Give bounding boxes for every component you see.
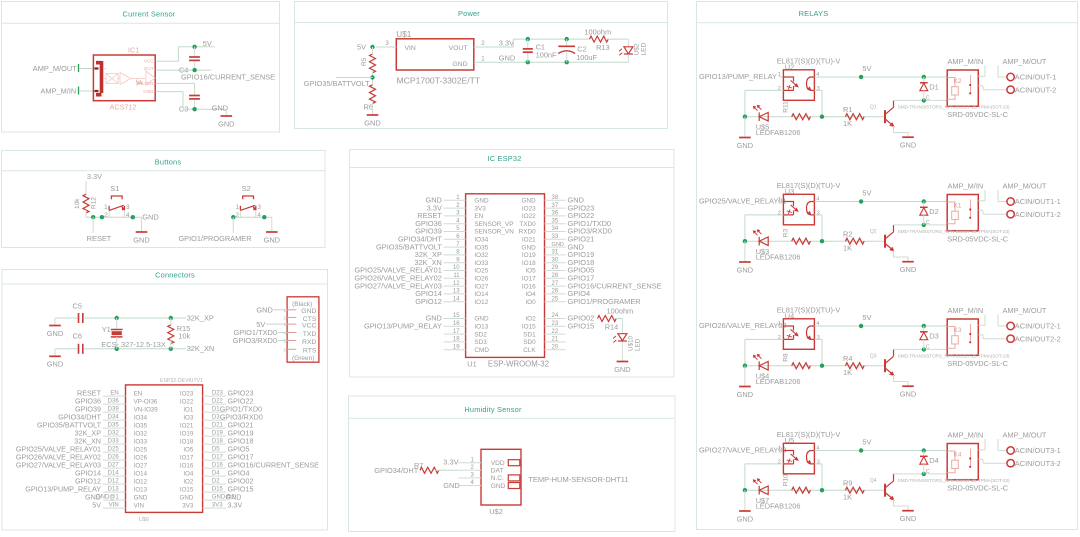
svg-text:OUT: OUT [144, 66, 154, 71]
svg-text:GND: GND [180, 495, 194, 502]
svg-text:VCC: VCC [144, 59, 154, 64]
wire GPIO1/TXD0 to serial pin4 [278, 332, 287, 334]
svg-text:RESET: RESET [87, 234, 112, 243]
node 5V [859, 324, 863, 328]
U1 pin 30 right [545, 262, 566, 264]
svg-text:4: 4 [126, 212, 130, 219]
U1 pin 29 right [545, 270, 566, 272]
wire IC1 OUT node GPIO16/CURRENT_SENSE [156, 69, 195, 71]
svg-text:U$2: U$2 [634, 43, 641, 55]
svg-text:GND: GND [521, 244, 536, 251]
svg-text:IO13: IO13 [474, 324, 488, 331]
svg-text:GND: GND [142, 212, 158, 221]
svg-text:ACIN/OUT3-2: ACIN/OUT3-2 [1015, 459, 1061, 468]
svg-text:15: 15 [453, 313, 460, 319]
svg-text:GND: GND [614, 365, 630, 374]
U$6 pin row 6 right D19 [203, 435, 226, 437]
capacitor C3 [189, 95, 200, 97]
U1 pin 14 left [444, 301, 466, 303]
svg-text:SD3: SD3 [474, 339, 487, 346]
wire gpio to optocoupler [779, 76, 783, 78]
U$6 pin row 11 right D4 [203, 475, 226, 477]
U$2 pin 3 N.C. [458, 477, 481, 479]
wire relay to terminal 2 [978, 458, 983, 460]
U$6 pin row 6 left D32 [103, 435, 126, 437]
U1 pin 24 right [545, 318, 566, 320]
svg-text:D2: D2 [212, 479, 220, 485]
svg-text:34: 34 [552, 226, 559, 232]
U1 pin 28 right [545, 277, 566, 279]
wire opto pin3 down [814, 89, 822, 91]
svg-text:TEMP-HUM-SENSOR-DHT11: TEMP-HUM-SENSOR-DHT11 [528, 475, 628, 484]
capacitor C4 [194, 47, 196, 56]
svg-text:GND: GND [364, 118, 380, 127]
wire 5V rail [814, 201, 947, 203]
serial pin 3 VCC [287, 323, 296, 325]
svg-text:38: 38 [552, 195, 559, 201]
svg-text:IO12: IO12 [134, 479, 148, 486]
U$6 pin row 13 left D13 [103, 491, 126, 493]
U1 pin 19 left [444, 349, 466, 351]
svg-text:IO19: IO19 [180, 431, 194, 438]
svg-text:IO2: IO2 [183, 479, 194, 486]
svg-text:RTS: RTS [303, 348, 317, 355]
svg-text:IO33: IO33 [474, 260, 488, 267]
U$6 pin row 9 right D17 [203, 459, 226, 461]
svg-text:GND: GND [900, 141, 916, 150]
svg-text:31: 31 [552, 250, 559, 256]
wire GND to serial pin1 [274, 309, 287, 311]
svg-text:VOUT: VOUT [449, 45, 468, 52]
svg-text:GND: GND [256, 306, 272, 315]
svg-text:C5: C5 [73, 302, 82, 311]
svg-text:IO14: IO14 [474, 291, 488, 298]
wire 5V rail [814, 325, 947, 327]
svg-text:IO15: IO15 [180, 487, 194, 494]
svg-text:2: 2 [778, 86, 781, 92]
IC1 connector bracket [96, 61, 102, 95]
resistor R6 [370, 85, 376, 104]
resistor R15 10k [170, 318, 172, 326]
frame: Power box [295, 2, 668, 129]
svg-text:GND: GND [47, 329, 63, 338]
svg-text:D32: D32 [108, 431, 120, 437]
svg-text:GPIO34/DHT: GPIO34/DHT [374, 466, 418, 475]
U$6 pin row 5 left D35 [103, 427, 126, 429]
svg-text:5V: 5V [92, 501, 101, 510]
svg-text:D1: D1 [929, 82, 938, 91]
svg-text:VN-IO39: VN-IO39 [134, 407, 159, 414]
svg-text:2: 2 [104, 212, 108, 219]
svg-text:SRD-05VDC-SL-C: SRD-05VDC-SL-C [947, 234, 1008, 243]
svg-text:ACIN/OUT2-1: ACIN/OUT2-1 [1015, 322, 1061, 331]
svg-text:2: 2 [778, 211, 781, 217]
svg-text:D36: D36 [108, 399, 120, 405]
svg-text:Buttons: Buttons [155, 157, 182, 166]
svg-text:IO25: IO25 [134, 447, 148, 454]
svg-text:IO19: IO19 [522, 252, 536, 259]
svg-text:IO25: IO25 [474, 268, 488, 275]
svg-text:LED: LED [635, 338, 642, 351]
svg-text:LEDFAB1206: LEDFAB1206 [756, 502, 801, 511]
resistor R8 [792, 363, 811, 369]
U1 pin 34 right [545, 231, 566, 233]
svg-text:D33: D33 [108, 439, 120, 445]
svg-text:GND: GND [552, 242, 564, 248]
wire 5V rail [814, 76, 947, 78]
svg-text:IO17: IO17 [522, 276, 536, 283]
svg-text:C2: C2 [577, 45, 586, 54]
svg-text:FILTER: FILTER [138, 81, 154, 86]
U1 pin 12 left [444, 285, 466, 287]
node RESET [92, 217, 94, 233]
wire 5V to R5 [372, 47, 374, 54]
svg-text:C: C [926, 96, 930, 102]
svg-text:IO32: IO32 [134, 431, 148, 438]
serial pin 2 CTS [287, 316, 296, 318]
svg-text:(Black): (Black) [292, 301, 312, 308]
svg-text:100ohm: 100ohm [607, 307, 634, 316]
svg-text:Q4: Q4 [870, 478, 877, 484]
svg-text:IO2: IO2 [525, 316, 536, 323]
svg-text:ESP-WROOM-32: ESP-WROOM-32 [488, 359, 549, 368]
wire opto pin2 to led row [745, 89, 784, 91]
svg-text:IO35: IO35 [474, 244, 488, 251]
frame: Connectors box [2, 270, 328, 531]
wire led row [745, 116, 885, 118]
pin 3 VIN stub [376, 46, 396, 48]
svg-text:1K: 1K [843, 243, 852, 252]
svg-text:LED: LED [641, 43, 648, 56]
node GPIO1/PROGRAMER [232, 217, 234, 233]
svg-text:GND: GND [443, 481, 459, 490]
svg-text:28: 28 [552, 273, 559, 279]
resistor R5 [370, 54, 376, 73]
wire relay to terminal 2 [978, 209, 983, 211]
svg-text:R9: R9 [843, 479, 852, 488]
svg-text:3V3: 3V3 [182, 503, 194, 510]
svg-text:R8: R8 [783, 353, 790, 362]
svg-text:2: 2 [778, 335, 781, 341]
svg-text:Power: Power [458, 9, 480, 18]
svg-text:3: 3 [817, 335, 820, 341]
U$6 pin row 7 left D33 [103, 443, 126, 445]
LED U$4 LEDFAB1206 [759, 361, 768, 370]
svg-text:IO33: IO33 [134, 439, 148, 446]
capacitor C2 100uF [565, 37, 569, 41]
U$6 pin row 12 left D12 [103, 483, 126, 485]
svg-text:Humidity Sensor: Humidity Sensor [464, 405, 522, 414]
svg-text:5V: 5V [203, 39, 212, 48]
svg-text:1: 1 [778, 446, 781, 452]
LED U$10 [618, 334, 627, 341]
serial pin 6 RTS [287, 348, 296, 350]
svg-text:26: 26 [552, 289, 559, 295]
svg-text:ACIN/OUT3-1: ACIN/OUT3-1 [1015, 446, 1061, 455]
U1 pin 11 left [444, 277, 466, 279]
svg-text:GND: GND [900, 390, 916, 399]
svg-text:C6: C6 [73, 332, 82, 341]
svg-text:10k: 10k [74, 198, 81, 209]
svg-text:GPIO12: GPIO12 [415, 297, 442, 306]
terminal ACIN/OUT-2 [1007, 86, 1014, 93]
svg-text:4: 4 [257, 212, 261, 219]
ground symbol (transistor) [902, 385, 914, 387]
svg-text:D18: D18 [212, 439, 224, 445]
svg-text:D4: D4 [212, 471, 220, 477]
svg-text:GND: GND [474, 316, 489, 323]
svg-text:D23: D23 [212, 391, 224, 397]
svg-text:GND: GND [491, 483, 506, 490]
U1 pin 35 right [545, 223, 566, 225]
svg-text:GND: GND [133, 235, 149, 244]
ground symbol (led) [744, 366, 746, 387]
svg-text:(Green): (Green) [292, 355, 314, 362]
svg-text:GPIO16/CURRENT_SENSE: GPIO16/CURRENT_SENSE [181, 72, 275, 81]
svg-text:11: 11 [453, 273, 460, 279]
svg-text:U$2: U$2 [489, 507, 503, 516]
svg-text:32K_XP: 32K_XP [187, 313, 214, 322]
svg-text:D4: D4 [929, 456, 938, 465]
svg-text:U1: U1 [467, 359, 476, 368]
svg-text:32K_XN: 32K_XN [187, 344, 215, 353]
serial pin 4 TXD [287, 332, 296, 334]
U$6 pin row 7 right D18 [203, 443, 226, 445]
svg-text:C: C [926, 469, 930, 475]
connector serial header [287, 297, 319, 362]
wire button row S2 [233, 216, 271, 218]
svg-text:GND: GND [264, 235, 280, 244]
svg-text:EN: EN [474, 213, 483, 220]
svg-text:R1: R1 [843, 105, 852, 114]
svg-text:GPIO27/VALVE_RELAY03: GPIO27/VALVE_RELAY03 [699, 446, 787, 455]
LED U$3 LEDFAB1206 [759, 237, 768, 246]
ground symbol (C5) [54, 318, 56, 326]
svg-text:ACIN/OUT1-1: ACIN/OUT1-1 [1015, 197, 1061, 206]
svg-text:1: 1 [235, 204, 239, 211]
U1 pin 1 left [444, 199, 466, 201]
svg-text:35: 35 [552, 218, 559, 224]
resistor R2 1K [845, 238, 864, 244]
svg-text:22: 22 [552, 329, 559, 335]
svg-text:3V3: 3V3 [474, 205, 486, 212]
svg-text:IO16: IO16 [180, 463, 194, 470]
diode D2 [922, 199, 926, 203]
wire IC1 VCC to 5V [156, 60, 179, 62]
wire IC1 FILTER to C3 [156, 82, 195, 84]
svg-text:LEDFAB1206: LEDFAB1206 [756, 377, 801, 386]
terminal ACIN/OUT-1 [1007, 73, 1014, 80]
svg-text:GND: GND [301, 308, 316, 315]
svg-text:RXD: RXD [302, 339, 316, 346]
svg-text:R5: R5 [361, 57, 368, 66]
svg-text:100uF: 100uF [576, 53, 597, 62]
svg-text:3.3V: 3.3V [228, 501, 243, 510]
svg-text:AMP_M/OUT: AMP_M/OUT [33, 64, 77, 73]
svg-text:AMP_M/IN: AMP_M/IN [948, 306, 984, 315]
svg-text:D13: D13 [108, 487, 120, 493]
pin 1 GND stub [474, 61, 514, 63]
U1 pin 38 right [545, 199, 566, 201]
svg-text:3.3V: 3.3V [87, 172, 102, 181]
svg-text:ECS-.327-12.5-13X: ECS-.327-12.5-13X [101, 340, 166, 349]
svg-text:D25: D25 [108, 447, 120, 453]
svg-text:16: 16 [453, 321, 460, 327]
svg-text:18: 18 [453, 337, 460, 343]
svg-text:IO12: IO12 [474, 299, 488, 306]
node 5V [859, 75, 863, 79]
svg-text:EN: EN [110, 391, 118, 397]
U1 pin 23 right [545, 325, 566, 327]
svg-text:D27: D27 [108, 463, 120, 469]
svg-text:Y1: Y1 [102, 325, 111, 334]
svg-text:R2: R2 [843, 230, 852, 239]
relay K2 SRD-05VDC-SL-C [947, 70, 978, 106]
svg-text:5V: 5V [357, 43, 366, 52]
svg-text:D21: D21 [212, 423, 224, 429]
svg-text:SENSOR_VP: SENSOR_VP [474, 221, 513, 228]
svg-text:GND: GND [737, 390, 753, 399]
svg-text:D3: D3 [929, 331, 938, 340]
LED U$7 LEDFAB1206 [759, 486, 768, 495]
svg-text:3: 3 [126, 204, 130, 211]
svg-text:ACIN/OUT2-2: ACIN/OUT2-2 [1015, 334, 1061, 343]
svg-text:VP-OI36: VP-OI36 [134, 399, 158, 406]
wire opto pin2 to led row [745, 338, 784, 340]
U1 pin 16 left [444, 325, 466, 327]
svg-text:GPIO15: GPIO15 [568, 322, 595, 331]
wire led row [745, 240, 885, 242]
svg-text:GND: GND [47, 360, 63, 369]
wire led row [745, 365, 885, 367]
svg-text:VDD: VDD [491, 460, 505, 467]
svg-text:GND: GND [900, 265, 916, 274]
U$6 pin row 2 left D36 [103, 403, 126, 405]
U1 pin 20 right [545, 349, 566, 351]
svg-text:3: 3 [817, 460, 820, 466]
svg-text:19: 19 [453, 344, 460, 350]
svg-text:37: 37 [552, 203, 559, 209]
svg-text:GND: GND [452, 61, 467, 68]
relay K1 SRD-05VDC-SL-C [947, 195, 978, 231]
svg-text:10k: 10k [178, 332, 190, 341]
svg-text:GND: GND [499, 54, 515, 63]
svg-text:CMD: CMD [474, 347, 489, 354]
resistor R11 [792, 114, 811, 120]
frame: Humidity Sensor box [349, 396, 676, 532]
ground symbol (transistor) [902, 510, 914, 512]
svg-text:D5: D5 [212, 447, 220, 453]
svg-text:IC ESP32: IC ESP32 [487, 154, 521, 163]
svg-text:GND: GND [218, 119, 234, 128]
svg-text:ACS712: ACS712 [110, 102, 137, 111]
pin 2 VOUT stub [474, 46, 514, 48]
wire GPIO3/RXD0 to serial pin5 [278, 340, 287, 342]
svg-text:Q1: Q1 [870, 105, 877, 111]
svg-text:GPIO26/VALVE_RELAY02: GPIO26/VALVE_RELAY02 [699, 321, 787, 330]
svg-text:IO4: IO4 [183, 471, 194, 478]
svg-text:Connectors: Connectors [155, 271, 195, 280]
U$2 pin 2 DAT [458, 469, 481, 471]
svg-text:LEDFAB1206: LEDFAB1206 [756, 128, 801, 137]
svg-text:5V: 5V [862, 64, 871, 73]
svg-text:IO5: IO5 [525, 268, 536, 275]
svg-text:IO0: IO0 [525, 299, 536, 306]
U1 pin 18 left [444, 341, 466, 343]
svg-text:D15: D15 [212, 487, 224, 493]
svg-text:IO22: IO22 [522, 213, 536, 220]
wire collector row C [894, 99, 948, 101]
svg-text:3V3: 3V3 [212, 503, 223, 509]
svg-text:R6: R6 [364, 102, 373, 111]
svg-text:GND: GND [900, 514, 916, 523]
ground symbol (led) [744, 490, 746, 511]
svg-text:R11: R11 [783, 101, 790, 113]
U1 pin 4 left [444, 223, 466, 225]
svg-text:27: 27 [552, 281, 559, 287]
svg-text:2: 2 [235, 212, 239, 219]
ground symbol (C6) [54, 349, 56, 357]
svg-text:GPIO1/PROGRAMER: GPIO1/PROGRAMER [178, 234, 251, 243]
ground symbol (transistor) [902, 136, 914, 138]
ground symbol (current sensor) [225, 109, 227, 116]
svg-text:20: 20 [552, 344, 559, 350]
wire AMP_M/OUT to IC1 [78, 64, 80, 72]
ground symbol (led) [744, 241, 746, 262]
U1 pin 31 right [545, 254, 566, 256]
svg-text:R14: R14 [605, 323, 619, 332]
diode D3 [922, 324, 926, 328]
svg-text:D19: D19 [212, 431, 224, 437]
svg-text:AMP_M/OUT: AMP_M/OUT [1003, 430, 1047, 439]
terminal ACIN/OUT3-2 [1007, 460, 1014, 467]
ground symbol (led) [744, 117, 746, 138]
svg-text:IC1: IC1 [128, 46, 139, 55]
svg-text:10: 10 [453, 265, 460, 271]
svg-text:IO13: IO13 [134, 487, 148, 494]
svg-text:IO22: IO22 [180, 399, 194, 406]
svg-text:IO16: IO16 [522, 283, 536, 290]
svg-text:Current Sensor: Current Sensor [123, 10, 176, 19]
svg-text:24: 24 [552, 313, 559, 319]
U$6 pin row 4 left D34 [103, 419, 126, 421]
diode D1 [922, 75, 926, 79]
svg-text:GPIO13/PUMP_RELAY: GPIO13/PUMP_RELAY [699, 72, 777, 81]
wire AMP_M/IN to IC1 [78, 87, 80, 95]
svg-text:U$6: U$6 [139, 517, 149, 523]
wire LED to GND rail [627, 55, 629, 63]
capacitor C1 100nF [526, 37, 530, 41]
wire IC1 GND to gnd node [156, 91, 184, 93]
IC1 internals [103, 69, 156, 87]
svg-text:IO35: IO35 [134, 423, 148, 430]
U1 pin 25 right [545, 301, 566, 303]
resistor R1 1K [845, 114, 864, 120]
U$6 pin row 14 right GND@2 [203, 499, 226, 501]
wire 5V to serial pin3 [266, 323, 287, 325]
svg-text:D17: D17 [212, 455, 224, 461]
svg-text:IO15: IO15 [522, 324, 536, 331]
svg-text:VIN: VIN [134, 503, 144, 510]
LED U$5 LEDFAB1206 [759, 112, 768, 121]
svg-text:GND: GND [212, 103, 228, 112]
ground symbol (U$10) [621, 342, 623, 362]
svg-text:100ohm: 100ohm [584, 28, 611, 37]
svg-text:ESP32-DEVKITV1: ESP32-DEVKITV1 [160, 378, 203, 384]
wire GND rail [513, 61, 628, 63]
svg-text:IO1: IO1 [183, 407, 194, 414]
wire gpio to optocoupler [779, 450, 783, 452]
